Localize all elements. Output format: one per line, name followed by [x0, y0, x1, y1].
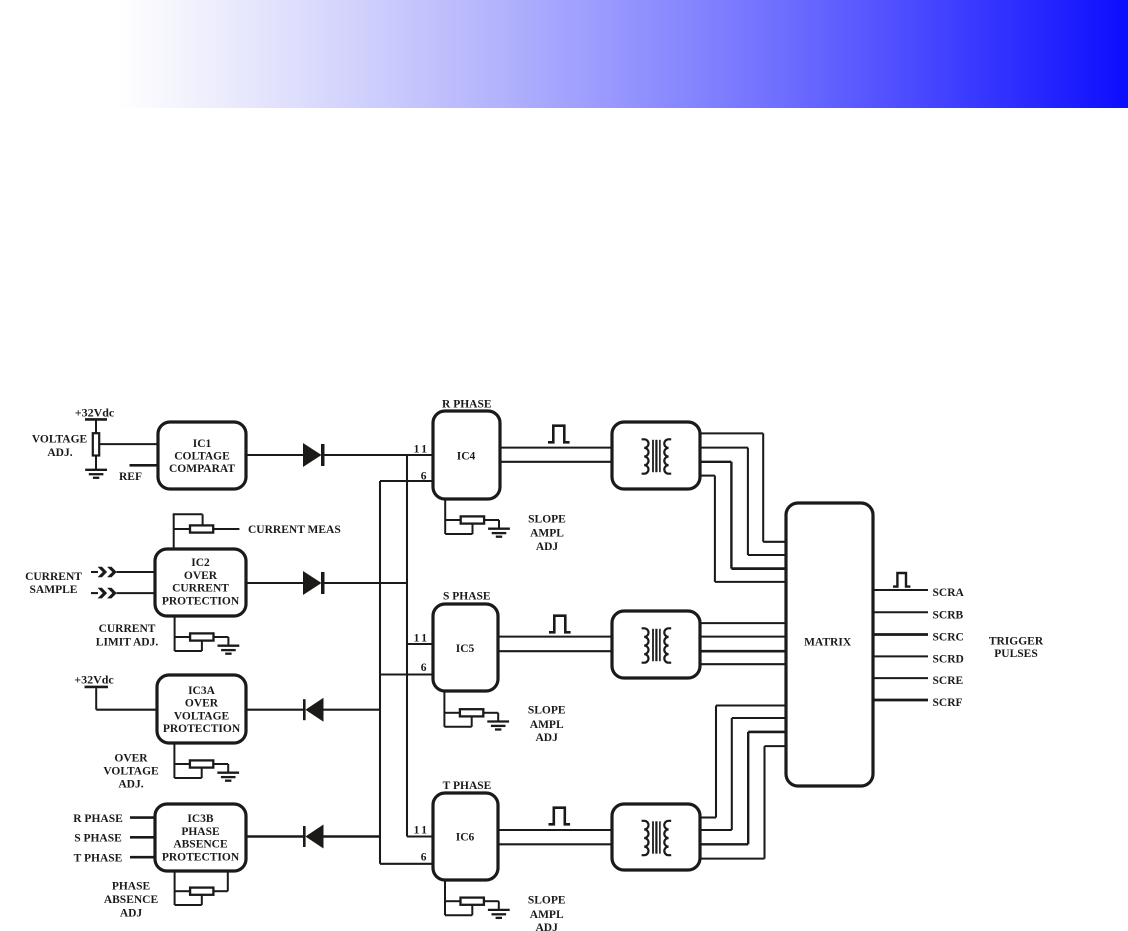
svg-text:IC3A: IC3A [188, 685, 216, 697]
block pulse transformer T3 [612, 804, 700, 870]
wire T2 out3 to matrix [700, 650, 786, 653]
wire IC2 output to D2 [246, 582, 304, 584]
pulse symbol (S phase) [549, 616, 571, 633]
pot CURRENT MEAS left terminal [174, 528, 190, 530]
REF input stub [130, 464, 159, 467]
svg-text:PHASE: PHASE [112, 881, 151, 893]
svg-text:IC2: IC2 [191, 557, 210, 569]
svg-text:6: 6 [421, 662, 427, 674]
resistor R1 VOLTAGE ADJ body [93, 433, 99, 455]
svg-text:SCRD: SCRD [933, 653, 964, 665]
pulse symbol (R phase) [548, 426, 570, 443]
pot OVER VOLTAGE ADJ [173, 743, 175, 778]
wire D1 to IC4 pin 11 node [324, 454, 433, 456]
wire bus A to IC6 pin 11 [407, 835, 433, 837]
svg-text:T PHASE: T PHASE [443, 780, 492, 792]
ground (IC6 pot) [488, 909, 510, 911]
pot SLOPE AMPL ADJ (IC5) [443, 691, 445, 727]
svg-text:PROTECTION: PROTECTION [163, 723, 241, 735]
svg-text:OVER: OVER [185, 698, 219, 710]
svg-text:PULSES: PULSES [994, 648, 1037, 660]
svg-text:SLOPE: SLOPE [528, 705, 566, 717]
diode D1 [303, 443, 322, 467]
power rail bar +32Vdc (IC3A) [85, 686, 109, 689]
svg-text:VOLTAGE: VOLTAGE [103, 766, 159, 778]
block IC3B phase absence protection [155, 804, 246, 871]
svg-text:S PHASE: S PHASE [74, 833, 122, 845]
wire T3 out1 to matrix [700, 816, 716, 818]
svg-text:CURRENT: CURRENT [172, 583, 229, 595]
svg-text:ADJ: ADJ [120, 908, 143, 920]
svg-text:T PHASE: T PHASE [74, 852, 123, 864]
wire T3 out4 to matrix [700, 858, 765, 860]
wire IC6 to T3 (lower) [498, 843, 612, 845]
wire D3 to bus B [324, 709, 381, 711]
ground (IC1 R1) [85, 469, 107, 471]
transformer T3 secondary winding [664, 821, 671, 855]
wire MATRIX to SCRE [873, 677, 928, 679]
pot CURRENT LIMIT ADJ [174, 616, 176, 651]
block IC2 over current protection [155, 549, 246, 616]
svg-text:CURRENT MEAS: CURRENT MEAS [248, 524, 341, 536]
header banner gradient [4, 0, 1128, 108]
wire +32Vdc to R1 [95, 421, 97, 434]
pot CURRENT MEAS body [190, 525, 213, 532]
transformer T3 core [652, 821, 654, 853]
input arrow current sample 1 [91, 571, 98, 573]
svg-text:SCRA: SCRA [933, 587, 965, 599]
svg-text:OVER: OVER [114, 753, 148, 765]
block pulse transformer T2 [612, 611, 700, 678]
wire T2 out1 to matrix [700, 622, 786, 624]
svg-text:11: 11 [414, 633, 430, 645]
wire T3 out3 to matrix [700, 843, 748, 845]
bus B vertical (pin 6 bus) [379, 481, 381, 864]
diode D4 [303, 826, 306, 847]
wire T1 out2 to matrix [700, 447, 748, 449]
input arrow current sample 2 [91, 592, 98, 594]
svg-text:COLTAGE: COLTAGE [174, 451, 230, 463]
pot SLOPE AMPL ADJ (IC6) [444, 880, 446, 915]
wire IC6 to T3 (upper) [498, 829, 612, 831]
svg-text:AMPL: AMPL [530, 719, 564, 731]
svg-text:IC5: IC5 [456, 643, 475, 655]
block IC4 [433, 411, 500, 499]
wire IC4 pin 6 row [380, 480, 433, 482]
wire MATRIX to SCRA [873, 589, 928, 591]
wire +32Vdc to IC3A [95, 688, 97, 710]
svg-text:VOLTAGE: VOLTAGE [174, 710, 230, 722]
ground (IC3A pot) [217, 772, 239, 774]
svg-text:PROTECTION: PROTECTION [162, 851, 240, 863]
wire T2 out4 to matrix [700, 663, 786, 665]
transformer T2 primary winding [642, 628, 649, 662]
svg-text:CURRENT: CURRENT [25, 571, 82, 583]
wire R1 to ground [95, 456, 97, 470]
block pulse transformer T1 [612, 422, 700, 489]
pulse symbol (trigger output) [893, 573, 910, 587]
bus A vertical (pin 11 bus) [406, 455, 408, 837]
wire IC5 to T2 (upper) [498, 636, 612, 638]
svg-text:SCRB: SCRB [933, 609, 964, 621]
pot CURRENT MEAS wiper arm [173, 514, 175, 549]
ground (IC5 pot) [487, 720, 509, 722]
wire MATRIX to SCRF [873, 699, 928, 702]
transformer T1 primary winding [642, 439, 649, 473]
svg-text:ABSENCE: ABSENCE [173, 839, 228, 851]
svg-text:S PHASE: S PHASE [443, 591, 491, 603]
wire MATRIX to SCRD [873, 655, 928, 657]
svg-text:ADJ.: ADJ. [47, 447, 72, 459]
transformer T1 secondary winding [664, 439, 671, 473]
svg-text:CURRENT: CURRENT [99, 623, 156, 635]
wire IC1 output to D1 [246, 454, 304, 456]
pot SLOPE AMPL ADJ (IC4) [444, 499, 446, 534]
svg-text:IC4: IC4 [457, 451, 476, 463]
svg-text:+32Vdc: +32Vdc [75, 406, 115, 420]
svg-text:ABSENCE: ABSENCE [104, 894, 159, 906]
ground (IC2 pot) [218, 645, 240, 647]
power rail bar +32Vdc (IC1) [85, 418, 107, 421]
block IC3A over voltage protection [157, 675, 246, 743]
wire D2 to bus A [324, 582, 407, 584]
svg-text:PROTECTION: PROTECTION [162, 595, 240, 607]
wire IC3A output to D3 [246, 709, 304, 711]
wire T1 out4 to matrix [700, 475, 715, 477]
svg-text:ADJ: ADJ [536, 541, 559, 553]
svg-text:IC6: IC6 [456, 832, 475, 844]
svg-text:6: 6 [421, 852, 427, 864]
wire pot to CURRENT MEAS [213, 528, 239, 530]
svg-text:AMPL: AMPL [530, 528, 564, 540]
diode D3 [303, 699, 306, 720]
block IC6 [433, 793, 498, 880]
svg-text:VOLTAGE: VOLTAGE [32, 434, 88, 446]
svg-text:SLOPE: SLOPE [528, 514, 566, 526]
svg-text:IC1: IC1 [193, 438, 212, 450]
svg-text:SCRF: SCRF [933, 697, 963, 709]
svg-text:+32Vdc: +32Vdc [74, 673, 114, 687]
wire MATRIX to SCRC [873, 633, 928, 636]
transformer T1 core [652, 440, 654, 472]
wire R1 wiper to IC1 input [99, 443, 158, 445]
svg-text:MATRIX: MATRIX [804, 637, 852, 649]
transformer T2 secondary winding [664, 628, 671, 662]
wire IC4 to T1 (lower) [500, 461, 612, 463]
input stub S PHASE [130, 836, 155, 839]
input stub T PHASE [130, 856, 155, 859]
svg-text:TRIGGER: TRIGGER [989, 636, 1044, 648]
svg-text:AMPL: AMPL [530, 909, 564, 921]
input stub R PHASE [130, 816, 155, 819]
svg-text:PHASE: PHASE [181, 826, 220, 838]
wire bus B to IC5 pin 6 [380, 673, 433, 675]
pot PHASE ABSENCE ADJ [174, 871, 176, 905]
svg-text:IC3B: IC3B [187, 813, 214, 825]
svg-text:REF: REF [119, 471, 142, 483]
wire bus A to IC5 pin 11 [407, 643, 433, 645]
svg-text:COMPARAT: COMPARAT [169, 463, 235, 475]
diode D2 [303, 571, 322, 595]
svg-text:ADJ: ADJ [536, 922, 559, 931]
wire IC4 to T1 (upper) [500, 447, 612, 449]
svg-text:LIMIT ADJ.: LIMIT ADJ. [96, 637, 159, 649]
wire T1 out1 to matrix [700, 432, 763, 434]
wire T3 out2 to matrix [700, 829, 732, 831]
svg-text:6: 6 [421, 471, 427, 483]
block IC5 [433, 604, 498, 691]
svg-text:SCRC: SCRC [933, 632, 964, 644]
svg-text:ADJ.: ADJ. [118, 779, 143, 791]
transformer T3 primary winding [642, 821, 649, 855]
wire MATRIX to SCRB [873, 611, 928, 613]
svg-text:SCRE: SCRE [933, 675, 964, 687]
block MATRIX [786, 503, 873, 786]
transformer T2 core [652, 629, 654, 661]
svg-text:11: 11 [414, 444, 430, 456]
wire D4 to bus B [324, 835, 381, 838]
wire T2 out2 to matrix [700, 636, 786, 638]
block IC1 voltage comparator [158, 422, 246, 489]
wire IC3B output to D4 [246, 835, 304, 838]
svg-text:11: 11 [414, 825, 430, 837]
svg-text:ADJ: ADJ [536, 732, 559, 744]
ground (IC4 pot) [488, 528, 510, 530]
svg-text:SLOPE: SLOPE [528, 895, 566, 907]
svg-text:R PHASE: R PHASE [73, 813, 123, 825]
wire T1 out3 to matrix [700, 461, 731, 463]
svg-text:R PHASE: R PHASE [442, 399, 492, 411]
wire bus B to IC6 pin 6 [380, 863, 433, 865]
svg-text:SAMPLE: SAMPLE [30, 584, 78, 596]
wire IC5 to T2 (lower) [498, 650, 612, 652]
pulse symbol (T phase) [549, 808, 571, 825]
svg-text:OVER: OVER [184, 570, 218, 582]
